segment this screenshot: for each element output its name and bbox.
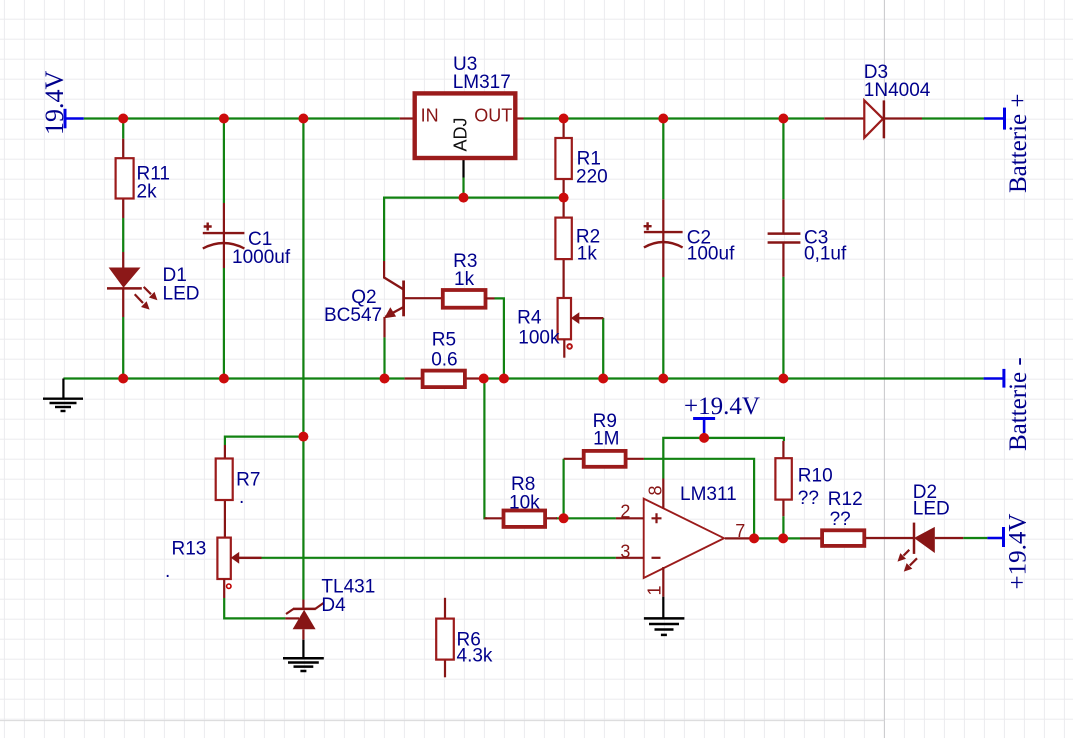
wire top rail 19.4V left xyxy=(84,117,400,119)
power flag Batterie - xyxy=(984,357,1032,451)
wire C2 branch xyxy=(662,119,664,379)
svg-text:10k: 10k xyxy=(509,493,540,514)
svg-text:0.6: 0.6 xyxy=(431,350,457,371)
resistor R8 xyxy=(484,474,557,527)
svg-text:R10: R10 xyxy=(798,466,833,487)
wire C3 branch xyxy=(782,119,784,379)
diode D3 1N4004 xyxy=(824,62,930,138)
svg-text:220: 220 xyxy=(576,167,608,188)
svg-text:??: ?? xyxy=(830,509,851,530)
resistor R1 xyxy=(555,119,607,198)
comparator U LM311 xyxy=(616,479,751,597)
wire bottom rail Batterie- right xyxy=(483,377,983,379)
junction top rail x303 xyxy=(298,114,308,124)
svg-text:3: 3 xyxy=(620,542,630,562)
ground under D4 xyxy=(283,640,324,671)
power flag 19.4V top left xyxy=(40,71,84,136)
resistor R6 xyxy=(436,598,493,678)
svg-text:8: 8 xyxy=(646,485,666,495)
svg-text:.: . xyxy=(239,487,244,508)
power flag +19.4V at LM311 xyxy=(684,393,760,438)
svg-text:Batterie +: Batterie + xyxy=(1005,94,1032,193)
resistor R11 xyxy=(116,139,170,218)
wire 19.4V down to TL431 xyxy=(302,119,304,600)
junction output node 2 xyxy=(778,533,788,543)
capacitor C2 xyxy=(644,199,735,277)
svg-text:1k: 1k xyxy=(577,244,598,265)
junction bottom rail R5 right xyxy=(479,374,489,384)
wire R13 bottom to TL431 ref xyxy=(224,598,285,618)
LED D2 xyxy=(898,482,964,572)
svg-text:1k: 1k xyxy=(454,269,475,290)
potentiometer R4 xyxy=(517,298,603,358)
wire output to R12 xyxy=(751,537,800,539)
junction ADJ R1 R2 xyxy=(559,193,569,203)
wire R11 branch xyxy=(122,119,124,379)
svg-text:100k: 100k xyxy=(518,328,560,349)
wire R9 right to output xyxy=(644,459,754,539)
resistor R10 xyxy=(775,441,832,538)
ground under LM311 pin1 xyxy=(644,597,685,635)
junction output node 1 xyxy=(749,533,759,543)
transistor Q2 BC547 xyxy=(324,261,443,337)
shunt regulator D4 TL431 xyxy=(285,576,375,639)
voltage regulator U3 LM317 xyxy=(400,54,524,178)
wire bottom rail Batterie- left xyxy=(63,377,404,379)
wire R7 branch xyxy=(225,437,304,445)
svg-text:0,1uf: 0,1uf xyxy=(804,244,847,265)
junction plus input node xyxy=(559,513,569,523)
wire LM311 minus input net xyxy=(262,557,616,559)
svg-text:2: 2 xyxy=(620,502,630,522)
svg-text:.: . xyxy=(165,561,170,582)
wire R8 to plus input xyxy=(556,517,616,519)
power flag Batterie + xyxy=(984,94,1032,193)
svg-text:R4: R4 xyxy=(517,308,542,329)
power flag +19.4V right xyxy=(987,514,1031,590)
svg-text:+19.4V: +19.4V xyxy=(1005,514,1032,590)
resistor R3 xyxy=(443,251,495,308)
potentiometer R13 xyxy=(165,538,262,598)
svg-text:2k: 2k xyxy=(137,182,158,203)
junction bottom rail x224 xyxy=(219,374,229,384)
junction ADJ pin xyxy=(459,193,469,203)
capacitor C3 xyxy=(768,199,847,276)
junction top rail x564 R1 xyxy=(559,114,569,124)
junction bottom rail C3 xyxy=(778,374,788,384)
svg-text:TL431: TL431 xyxy=(321,576,375,597)
svg-text:??: ?? xyxy=(798,488,819,509)
junction R7 branch xyxy=(298,432,308,442)
wire Q2 emitter to rail xyxy=(383,337,385,378)
svg-text:+19.4V: +19.4V xyxy=(684,393,760,420)
svg-text:1: 1 xyxy=(645,585,665,595)
svg-text:4.3k: 4.3k xyxy=(457,646,493,667)
wire R9 left leg xyxy=(562,459,564,519)
svg-text:1N4004: 1N4004 xyxy=(864,80,931,101)
wire C1 branch xyxy=(223,119,225,379)
resistor R12 xyxy=(800,489,914,546)
svg-text:100uf: 100uf xyxy=(687,244,735,265)
svg-text:LM317: LM317 xyxy=(453,72,511,93)
junction +19.4V flag xyxy=(699,433,709,443)
svg-text:R5: R5 xyxy=(432,329,456,350)
svg-text:LED: LED xyxy=(163,284,200,305)
junction top rail x783 C3 xyxy=(778,114,788,124)
junction top rail x123 xyxy=(118,114,128,124)
svg-text:R12: R12 xyxy=(828,489,863,510)
wire +19.4V rail xyxy=(663,438,784,479)
wire D3 to Batterie+ xyxy=(922,117,984,119)
junction bottom rail C2 xyxy=(658,374,668,384)
svg-text:OUT: OUT xyxy=(474,105,512,125)
svg-text:D4: D4 xyxy=(321,595,346,616)
svg-text:BC547: BC547 xyxy=(324,305,382,326)
svg-text:LM311: LM311 xyxy=(680,484,737,505)
ground left rail end xyxy=(43,379,83,412)
svg-text:1M: 1M xyxy=(593,429,619,450)
junction bottom rail x123 xyxy=(118,374,128,384)
junction top rail x663 C2 xyxy=(658,114,668,124)
wire D2 to +19.4V flag xyxy=(963,537,987,539)
resistor R5 xyxy=(405,329,484,387)
junction top rail x224 xyxy=(219,114,229,124)
LED D1 xyxy=(107,252,199,317)
svg-text:R13: R13 xyxy=(172,538,207,559)
resistor R9 xyxy=(564,411,644,467)
wire R4 wiper to rail xyxy=(602,318,604,379)
junction bottom rail R3 drop xyxy=(499,374,509,384)
svg-text:LED: LED xyxy=(913,499,950,520)
svg-text:1000uf: 1000uf xyxy=(232,247,291,268)
wire R3 right to rail xyxy=(495,298,504,378)
capacitor C1 xyxy=(203,203,291,268)
junction bottom rail Q2 emitter xyxy=(380,374,390,384)
svg-text:Batterie -: Batterie - xyxy=(1005,357,1032,451)
svg-text:ADJ: ADJ xyxy=(451,117,471,151)
resistor R2 xyxy=(555,198,600,298)
svg-text:IN: IN xyxy=(421,105,439,125)
wire top rail OUT to D3 xyxy=(524,117,825,119)
resistor R7 xyxy=(216,445,261,538)
junction bottom rail R4 wiper xyxy=(598,374,608,384)
wire rail down to R8 xyxy=(484,379,487,519)
svg-text:7: 7 xyxy=(735,521,745,541)
svg-text:19.4V: 19.4V xyxy=(40,71,69,136)
wire ADJ net xyxy=(384,178,563,262)
